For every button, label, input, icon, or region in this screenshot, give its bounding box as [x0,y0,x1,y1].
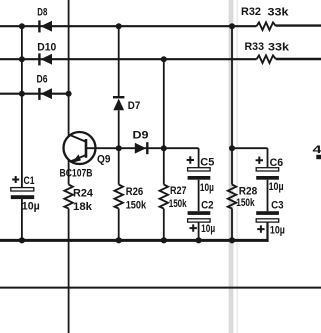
svg-text:R26: R26 [126,186,144,198]
wire C5 branch corner [164,148,199,167]
resistor R26 [115,185,147,212]
diode D8 [37,6,52,32]
resistor R28 [228,185,257,210]
diode D10 [37,41,56,65]
node row1-x232 [229,23,235,29]
capacitor C2 [188,200,216,235]
svg-text:R24: R24 [73,187,94,199]
diode D7 [113,97,140,112]
node base-x118 [116,145,122,151]
node row1-x118 [116,23,122,29]
svg-text:D6: D6 [37,74,48,86]
node bus-x198 [196,237,202,243]
node base-x232 [229,145,235,151]
resistor R27 [160,185,188,211]
node row2-x163 [161,56,167,62]
svg-text:C2: C2 [201,200,214,212]
wire row2 [0,58,321,60]
svg-text:C6: C6 [270,157,284,169]
resistor R32 [241,6,290,30]
svg-text:10µ: 10µ [22,201,40,213]
resistor R33 [245,41,291,63]
svg-text:R32: R32 [241,6,261,18]
node bus-x232 [229,237,235,243]
wire C6-C3 link [267,180,269,212]
svg-text:D8: D8 [37,6,47,18]
capacitor C3 [256,200,285,237]
svg-text:D9: D9 [133,129,149,141]
wire vertical x232 [231,26,233,240]
wire C5-C2 link [198,180,200,212]
node bus-x118 [116,237,122,243]
node row2-stub [19,56,25,62]
wire main vertical x68.6 [68,0,70,333]
diode D6 [37,74,53,100]
svg-text:R33: R33 [245,41,265,53]
svg-text:R27: R27 [170,185,187,197]
node D6-main [66,91,72,97]
capacitor C5 [187,156,215,194]
svg-text:C1: C1 [24,175,35,187]
diode D9 [133,129,149,154]
svg-text:10µ: 10µ [270,224,285,236]
svg-text:33k: 33k [268,6,290,18]
svg-text:150k: 150k [236,197,255,209]
svg-text:150k: 150k [169,198,188,210]
svg-text:10µ: 10µ [269,181,284,193]
svg-text:C5: C5 [200,156,214,168]
svg-text:Q9: Q9 [97,153,111,165]
node row3-stub [19,91,25,97]
svg-text:D10: D10 [37,41,56,53]
wire bottom rail [0,287,321,289]
svg-text:4: 4 [313,144,321,156]
resistor R24 [64,185,93,213]
node edge-glyph [313,144,321,159]
svg-text:10µ: 10µ [201,223,215,235]
svg-text:C3: C3 [271,200,284,212]
svg-text:150k: 150k [126,199,147,211]
wire bottom bus [0,239,269,242]
wire C2 to bus [198,222,200,240]
node bus-stub [19,237,25,243]
node row1-stub [19,23,25,29]
wire C6 branch corner [232,148,268,167]
capacitor C6 [256,157,284,194]
svg-text:D7: D7 [128,100,141,112]
wire vertical x163.8 [163,59,165,240]
svg-text:10µ: 10µ [200,182,214,194]
capacitor C1 [11,175,40,213]
node bus-x163 [161,237,167,243]
svg-text:33k: 33k [268,41,290,53]
transistor Q9 [60,132,111,180]
svg-text:18k: 18k [73,201,93,213]
wire vertical x118.7 [118,26,120,240]
wire base row [86,147,164,149]
wire row1 net +rail top [0,25,321,28]
wire row3 D6 branch [0,93,69,95]
svg-text:R28: R28 [239,186,258,198]
wire C3 to bus upturn [266,222,268,242]
svg-text:BC107B: BC107B [60,168,93,180]
wire left stub vertical x22 [21,26,23,240]
node base-x163 [161,145,167,151]
